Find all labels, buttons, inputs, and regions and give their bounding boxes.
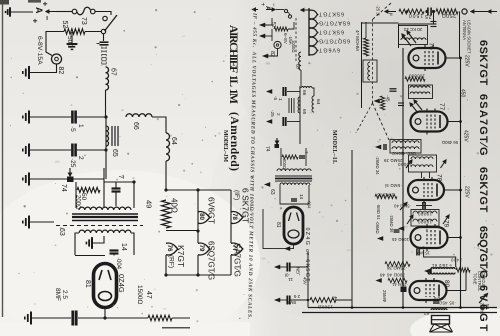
svg-text:81: 81 — [84, 280, 91, 288]
junction tube bus — [103, 316, 106, 319]
junction box right — [132, 180, 135, 183]
svg-text:·004: ·004 — [307, 200, 312, 209]
svg-text:20 KС 43: 20 KС 43 — [403, 27, 422, 32]
gang switch contact c — [103, 16, 107, 20]
wire switch to gang sw — [95, 12, 111, 16]
tube 78 6SK7GT — [408, 177, 444, 203]
lineup rail — [308, 8, 310, 56]
mini battery arrow l — [253, 8, 259, 11]
tube 77 6SA7GT — [411, 109, 448, 135]
tube77 right lead — [448, 121, 461, 123]
resistor 49 40ohm — [162, 200, 171, 228]
svg-text:AIRCHIEF 1L 1M: AIRCHIEF 1L 1M — [227, 25, 239, 104]
svg-text:14: 14 — [120, 243, 127, 251]
svg-text:6SK7GT: 6SK7GT — [477, 40, 489, 86]
if2 arrow r — [441, 160, 447, 168]
antenna line — [105, 90, 107, 117]
svg-text:10000: 10000 — [418, 220, 432, 225]
svg-text:1MΩ 35: 1MΩ 35 — [377, 193, 394, 198]
bus line 1 — [308, 307, 497, 309]
cap12 wire b — [291, 299, 309, 301]
rail dot 77 — [459, 120, 462, 123]
svg-text:45V: 45V — [303, 277, 308, 285]
cap11 wire — [280, 266, 287, 268]
svg-text:6SK7GT: 6SK7GT — [477, 167, 489, 213]
lineup socket 2 — [309, 19, 318, 28]
svg-text:NEГ: NEГ — [296, 267, 301, 276]
switch arm lead — [103, 34, 105, 41]
switch 73 contact b — [91, 9, 96, 14]
svg-text:2·5: 2·5 — [293, 294, 300, 299]
cap conv a — [390, 89, 397, 91]
cap7 top wire — [104, 181, 134, 183]
chart junction e — [196, 273, 199, 276]
mini lamp gnd — [268, 49, 278, 56]
svg-text:40Ω: 40Ω — [170, 198, 179, 213]
if1 coil a — [410, 86, 430, 88]
gang switch contact d — [101, 29, 105, 33]
junction ant pre — [406, 10, 409, 13]
pilot lamp 82 — [52, 54, 62, 64]
page top edge mark 2 — [28, 0, 41, 3]
svg-text:47: 47 — [145, 291, 152, 299]
if can 2 box — [409, 155, 437, 172]
mini 0Z4G plates — [289, 213, 300, 222]
arrow osc gnd — [375, 145, 381, 150]
svg-text:·05MΩ: ·05MΩ — [375, 221, 380, 234]
cap 12 8mf — [287, 296, 289, 305]
svg-text:+: + — [41, 2, 50, 7]
resistor 47 1500ohm — [148, 315, 172, 321]
chart rail 2 lower — [197, 255, 199, 275]
svg-text:82: 82 — [57, 67, 64, 75]
socket 79 — [198, 243, 210, 255]
svg-text:65: 65 — [301, 109, 307, 115]
wire if2 top — [416, 205, 432, 207]
svg-text:2400: 2400 — [450, 258, 462, 263]
svg-text:·5: ·5 — [273, 96, 278, 101]
svg-text:1: 1 — [77, 124, 84, 128]
svg-text:16⁄2 61: 16⁄2 61 — [431, 263, 448, 268]
cap if2 top — [423, 202, 425, 209]
tube79 right lead — [448, 237, 461, 239]
chart junction a — [164, 188, 167, 191]
ant arrow right — [471, 10, 480, 13]
mini wire to switch — [276, 9, 284, 11]
wire G4 to cap1 — [30, 116, 71, 118]
cap .006 — [433, 301, 439, 303]
mini gang dashed — [295, 18, 297, 62]
battery arrow — [46, 10, 56, 13]
bus to right — [172, 317, 190, 319]
resistor 1500 — [399, 9, 424, 14]
if1 coil b — [410, 92, 430, 94]
mini coil 64 — [312, 96, 314, 112]
chart junction d — [164, 273, 167, 276]
capacitor 14 value .004 — [110, 251, 119, 254]
osc coil b — [392, 147, 419, 149]
coil 66 — [126, 114, 152, 117]
if3 arrow r — [443, 215, 449, 224]
lineup socket 5 — [309, 46, 318, 55]
svg-text:425V: 425V — [463, 130, 469, 142]
resistor 1mohm 35 — [375, 194, 397, 198]
if2 coil b — [411, 165, 433, 167]
capacitor 2.5 8MF — [73, 311, 76, 326]
mini lamp feed — [271, 29, 273, 41]
coil 67 — [106, 67, 109, 90]
junction ant b — [432, 10, 435, 13]
mini coil 67 — [299, 52, 301, 70]
chart mid wire — [166, 230, 198, 232]
mini ground arrow c1 — [266, 89, 272, 94]
mini cap1 wire — [287, 91, 300, 93]
if1 arrow — [414, 100, 422, 110]
mini lead arrow — [284, 246, 290, 251]
svg-text:76: 76 — [166, 245, 173, 252]
svg-text:14: 14 — [299, 194, 304, 200]
rail dot 76 — [459, 57, 462, 60]
svg-text:24: 24 — [419, 246, 424, 251]
mini cap 14 — [291, 199, 297, 201]
svg-text:2.5: 2.5 — [61, 290, 68, 299]
svg-text:·0l: ·0l — [285, 273, 290, 278]
b+ rail right — [460, 58, 462, 308]
mini cap 2 — [283, 117, 285, 126]
cap12 wire — [280, 299, 287, 301]
wire ground to battery — [11, 11, 33, 13]
wire to ground G2 — [71, 32, 73, 43]
svg-text:25MФ: 25MФ — [382, 290, 387, 303]
svg-text:2: 2 — [77, 156, 84, 160]
if can 1 box — [409, 85, 433, 99]
svg-text:1500Ω: 1500Ω — [136, 285, 143, 304]
mini gnd wire 1 — [265, 18, 272, 25]
svg-text:47: 47 — [331, 294, 337, 300]
svg-text:A: A — [264, 6, 270, 11]
wire battery to switch — [56, 11, 72, 13]
svg-text:77: 77 — [438, 103, 445, 111]
svg-text:CONTROL: CONTROL — [477, 271, 482, 292]
if3 coil a — [413, 211, 437, 213]
capacitor 2 value .25 — [72, 144, 75, 157]
ant arrow left — [385, 10, 396, 13]
svg-text:63: 63 — [269, 189, 275, 195]
svg-text:74: 74 — [60, 184, 67, 192]
svg-text:0Z4G: 0Z4G — [117, 274, 126, 293]
mini trimmer arrow — [276, 138, 279, 144]
svg-text:48: 48 — [379, 273, 385, 278]
svg-text:64: 64 — [170, 137, 177, 145]
svg-text:6SQ7GT⁄G: 6SQ7GT⁄G — [207, 241, 216, 280]
svg-text:66: 66 — [301, 90, 307, 96]
0Z4G filament — [99, 292, 112, 301]
svg-text:·25MΩ 34: ·25MΩ 34 — [375, 156, 380, 175]
mini transformer primary — [277, 169, 311, 171]
svg-text:+: + — [31, 19, 40, 24]
svg-text:56 450Ω: 56 450Ω — [442, 140, 458, 145]
wire 64 down — [165, 161, 167, 190]
svg-text:6-8V·15A: 6-8V·15A — [36, 36, 43, 65]
ground G9 — [25, 312, 31, 325]
speaker magnet — [432, 316, 450, 325]
rf box left rail — [398, 24, 400, 48]
rf tuning arrow — [407, 31, 416, 43]
bus wire — [105, 117, 107, 179]
page top edge mark — [0, 0, 9, 5]
osc coil a — [392, 141, 419, 143]
svg-text:225V: 225V — [464, 186, 470, 198]
svg-text:200Ω: 200Ω — [282, 159, 287, 169]
mini resistor 200 — [282, 155, 298, 159]
svg-text:K7GT: K7GT — [176, 245, 186, 267]
rf coil box — [399, 26, 428, 45]
tube76 right lead — [446, 57, 461, 59]
lineup socket 1 — [309, 10, 318, 19]
lineup socket 3 — [309, 28, 318, 37]
wire G8 tap — [93, 236, 104, 243]
wire rail to rf — [362, 22, 399, 24]
svg-text:2: 2 — [276, 113, 281, 116]
primary box left — [75, 182, 77, 208]
mini pilot lamp 82 — [274, 41, 281, 48]
svg-text:15 MФ: 15 MФ — [416, 251, 430, 256]
svg-text:11: 11 — [288, 277, 293, 282]
arrow audio gnd — [377, 236, 383, 241]
mini switch contact b — [288, 15, 291, 18]
svg-text:·45: ·45 — [386, 95, 391, 102]
if2 to tube78 a — [421, 172, 423, 178]
svg-text:67: 67 — [110, 68, 117, 76]
if1 arrow2 — [410, 103, 418, 113]
tube80 right lead — [446, 290, 466, 292]
left rail — [402, 48, 404, 308]
ground G5 — [23, 144, 29, 157]
0Z4G plates — [99, 270, 111, 280]
chart top wire — [166, 189, 231, 191]
secondary box right — [131, 233, 134, 255]
tube 79 6SQ7GT — [411, 224, 448, 251]
tube78 right lead — [444, 189, 461, 191]
mini coil box — [363, 60, 377, 82]
junction cap1 bus — [104, 115, 107, 118]
mini resistor 52 — [274, 27, 288, 31]
coil 65 — [106, 126, 109, 146]
svg-text:0Z4G or 6X5GT: 0Z4G or 6X5GT — [304, 228, 310, 283]
lineup arrow — [301, 9, 312, 12]
svg-text:100Ω 45: 100Ω 45 — [391, 237, 409, 242]
svg-text:MODEL–JM: MODEL–JM — [222, 130, 228, 162]
primary box right — [133, 182, 135, 208]
svg-text:6SA7GT⁄G: 6SA7GT⁄G — [477, 94, 489, 156]
mini cap2 wire — [287, 121, 300, 123]
junction ant a — [425, 10, 428, 13]
mini 0Z4G filament — [288, 230, 299, 238]
mini secondary box — [280, 185, 309, 204]
svg-text:(IF): (IF) — [233, 190, 240, 200]
drop from ant row a — [433, 12, 435, 25]
speaker voice coil — [431, 309, 447, 310]
arrow conv gnd — [373, 99, 379, 104]
ant wire right — [480, 11, 497, 13]
svg-text:80: 80 — [198, 213, 205, 220]
chart rail 3 lower — [230, 255, 232, 275]
svg-text:7: 7 — [304, 151, 309, 154]
gang dashed diagonal — [373, 3, 391, 19]
trimmer bars — [431, 22, 437, 27]
svg-text:1500: 1500 — [409, 12, 423, 18]
resistor 25m 38 — [385, 262, 410, 267]
bus dot c — [459, 306, 462, 309]
rf box coil 2 — [401, 38, 426, 40]
cap 11 .01 — [287, 263, 289, 272]
rail dot 79 — [459, 236, 462, 239]
coil 64 — [166, 133, 170, 161]
electrolytic block — [401, 287, 407, 293]
resistor 1500 47 right — [310, 298, 336, 303]
mini switch contact a — [284, 9, 287, 12]
mini box coil — [368, 62, 370, 80]
svg-text:1000Ω: 1000Ω — [291, 40, 296, 52]
cap osc — [384, 144, 386, 150]
wire resistor to lamp — [46, 32, 64, 56]
svg-text:8MФ: 8MФ — [286, 300, 296, 305]
arrow det — [398, 226, 404, 231]
svg-text:78: 78 — [231, 213, 238, 220]
svg-text:−: − — [43, 16, 52, 21]
socket 78 — [231, 212, 243, 224]
svg-text:52: 52 — [61, 21, 68, 29]
svg-text:TONE: TONE — [473, 273, 478, 285]
antenna socket — [462, 9, 467, 14]
svg-text:8MF: 8MF — [54, 288, 61, 301]
osc coil box — [390, 140, 421, 154]
svg-text:·25M 41: ·25M 41 — [391, 282, 408, 287]
transformer primary coil — [79, 207, 131, 210]
arrow gnd c11 — [274, 265, 280, 270]
wire lamp to ground G3 — [30, 64, 57, 73]
mini ground arrow 1 — [259, 23, 265, 28]
svg-text:−: − — [270, 3, 276, 7]
arrow gnd c12 — [274, 298, 280, 303]
wire cap2 to bus — [77, 149, 106, 151]
mini switch flex — [287, 12, 290, 16]
chart rail 1 upper — [197, 190, 199, 243]
lower lead — [162, 327, 190, 329]
svg-text:6SA7GT⁄G: 6SA7GT⁄G — [319, 19, 350, 25]
svg-text:100000: 100000 — [408, 74, 425, 79]
tone pot arrow — [479, 294, 488, 304]
cap7 lead up — [115, 182, 117, 188]
svg-text:·006: ·006 — [434, 296, 446, 301]
bus cap to resistor — [78, 317, 148, 319]
svg-text:SA7GT⁄G: SA7GT⁄G — [233, 243, 242, 277]
resistor 50 200ohm — [77, 187, 100, 192]
agc rail — [361, 22, 363, 108]
switch 73 contact a — [72, 9, 77, 14]
svg-text:·25MΩ 38: ·25MΩ 38 — [387, 266, 407, 271]
mini coil 65 core — [289, 98, 294, 113]
capacitor 7 value .05 — [112, 189, 121, 192]
switch 73 flex wire — [77, 7, 91, 14]
svg-text:µ: µ — [389, 13, 394, 16]
svg-text:(RF): (RF) — [168, 255, 175, 268]
wire y24 — [399, 23, 434, 25]
cap 24 — [417, 249, 419, 256]
svg-text:6–8V: 6–8V — [283, 33, 288, 45]
wire 1500 to rail — [336, 300, 352, 308]
wire 66 to 64 — [152, 117, 166, 133]
ground G1 battery — [6, 7, 10, 16]
svg-text:6V6GT: 6V6GT — [318, 46, 340, 52]
svg-text:ANTENNA: ANTENNA — [462, 20, 467, 40]
socket 76 — [166, 243, 178, 255]
coil 65 core — [112, 126, 118, 146]
output transformer arrow — [424, 268, 432, 274]
cap7 lead down — [115, 192, 117, 206]
mini cap 7 — [299, 156, 305, 158]
chart junction c — [196, 229, 199, 232]
ground G3 — [23, 66, 29, 79]
junction mini rail — [307, 299, 310, 302]
wire G7 to shield — [30, 221, 54, 223]
resistor 52 50ohm — [64, 29, 85, 35]
tuning capacitor plates — [100, 42, 109, 45]
wire resistor to switch — [85, 31, 102, 33]
transformer secondary coil — [79, 230, 131, 233]
mini trimmer 74 — [275, 144, 280, 148]
svg-text:·5MΩ 5l: ·5MΩ 5l — [385, 183, 402, 188]
mini ground arrow 2 — [259, 34, 265, 39]
svg-text:79: 79 — [443, 220, 450, 228]
mini coil 65 — [298, 97, 300, 113]
svg-text:450: 450 — [460, 89, 466, 98]
tube79 plate wire — [424, 250, 456, 267]
mini coil67 down — [300, 70, 302, 86]
trimmer 74 — [67, 177, 74, 183]
resistor 250ohm — [436, 9, 458, 14]
transformer core — [72, 214, 138, 221]
primary box mid — [103, 168, 105, 208]
cap det — [394, 230, 400, 232]
trimmer caps conv — [398, 103, 404, 106]
res 47m lead — [365, 22, 367, 38]
output transformer secondary — [428, 273, 455, 275]
svg-text:·25: ·25 — [69, 158, 76, 168]
svg-text:·25: ·25 — [270, 110, 275, 117]
svg-text:·25: ·25 — [425, 13, 434, 19]
svg-text:64: 64 — [315, 99, 321, 105]
wire G5 to cap2 — [30, 149, 71, 151]
rail dot 78 — [459, 189, 462, 192]
svg-text:53: 53 — [485, 304, 490, 310]
capacitor 1 value .5 — [72, 111, 75, 124]
svg-text:6SQ7GT⁄G: 6SQ7GT⁄G — [319, 37, 350, 43]
speaker cone — [430, 324, 453, 332]
mini res wire — [288, 22, 294, 29]
cap11 wire b — [291, 266, 309, 268]
svg-text:66: 66 — [132, 122, 139, 130]
bus line 2 — [302, 312, 497, 314]
wire trimmer to box — [73, 178, 104, 180]
mini 66-64 wire — [312, 88, 314, 96]
ground G4 — [23, 111, 29, 124]
rectifier tube 0Z4G outline — [94, 264, 117, 308]
wire G6 to trimmer — [30, 178, 67, 180]
page left border line — [2, 0, 4, 317]
mini tube lead — [263, 209, 294, 249]
mini rail — [299, 86, 301, 144]
